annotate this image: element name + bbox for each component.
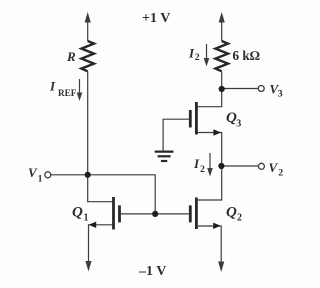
resistor R	[81, 41, 94, 71]
svg-text:3: 3	[278, 89, 283, 100]
svg-text:2: 2	[237, 212, 242, 223]
Q1 gate bar	[118, 205, 121, 222]
svg-text:REF: REF	[58, 88, 77, 98]
svg-text:V: V	[28, 165, 38, 180]
current IREF arrow	[79, 79, 81, 94]
svg-text:3: 3	[236, 118, 241, 129]
svg-text:Q: Q	[72, 205, 83, 221]
wire: right +1V arrow stem	[221, 21, 223, 41]
wire: left vertical from R to Q1 drain corner	[88, 72, 113, 202]
wire: common gate rail Q1-Q2	[121, 213, 189, 215]
svg-text:–1 V: –1 V	[138, 264, 166, 279]
power +1V arrow left	[85, 12, 91, 23]
svg-text:V: V	[269, 160, 279, 175]
wire: V2 node to terminal	[222, 165, 259, 167]
wire: Q3 gate to ground	[163, 119, 189, 151]
current I2 arrow top	[206, 44, 208, 60]
wire: Q1 source lead left then down	[89, 225, 113, 263]
current I2 arrow mid	[209, 153, 211, 170]
Q1 source arrowhead	[89, 222, 97, 228]
svg-text:1: 1	[38, 174, 43, 185]
svg-text:2: 2	[278, 168, 283, 179]
Q3 gate bar	[189, 110, 192, 128]
svg-text:R: R	[66, 49, 76, 64]
Q2 gate bar	[189, 205, 192, 222]
ground	[155, 152, 174, 161]
svg-text:2: 2	[195, 52, 200, 63]
svg-text:Q: Q	[226, 205, 237, 221]
Q2 channel bar	[195, 198, 198, 230]
node: gate rail junction	[152, 211, 158, 217]
resistor 6k	[215, 41, 228, 71]
wire: V1 terminal to node	[51, 174, 88, 176]
transistor Q3 (NMOS)	[190, 102, 221, 136]
transistor Q1 (mirrored NMOS)	[85, 197, 119, 272]
svg-text:2: 2	[200, 164, 205, 175]
wire: Q3 drain jog	[198, 89, 222, 107]
power +1V arrow right	[219, 12, 225, 23]
Q1 channel bar	[112, 197, 115, 230]
wire: V3 node to terminal	[222, 88, 259, 90]
Q2 down rail arrowhead	[218, 262, 224, 273]
node: V3 junction	[219, 86, 225, 92]
wire: Q3 source right then down to V2 node	[198, 133, 222, 167]
svg-text:6 kΩ: 6 kΩ	[233, 48, 260, 63]
wire: node to right then down to gate rail	[88, 175, 156, 214]
wire: left +1V arrow stem	[87, 21, 89, 41]
svg-text:I: I	[193, 156, 200, 171]
terminal V1	[45, 172, 51, 178]
wire: 6k resistor bottom to V3 node	[221, 72, 223, 89]
terminal V2	[258, 163, 264, 169]
svg-text:1: 1	[84, 212, 89, 223]
wire: Q2 source right then down	[198, 226, 221, 263]
node: V1 junction	[85, 172, 91, 178]
wire: V2 node down to Q2 drain jog	[198, 166, 222, 200]
svg-text:+1 V: +1 V	[142, 11, 170, 26]
svg-text:I: I	[49, 79, 56, 94]
Q3 source arrowhead	[213, 129, 221, 135]
terminal V3	[258, 86, 264, 92]
transistor Q2 (NMOS)	[190, 198, 224, 273]
node: V2 junction	[218, 163, 224, 169]
Q3 channel bar	[195, 102, 198, 135]
Q2 source arrowhead	[213, 223, 221, 229]
Q1 down rail arrowhead	[85, 261, 91, 272]
